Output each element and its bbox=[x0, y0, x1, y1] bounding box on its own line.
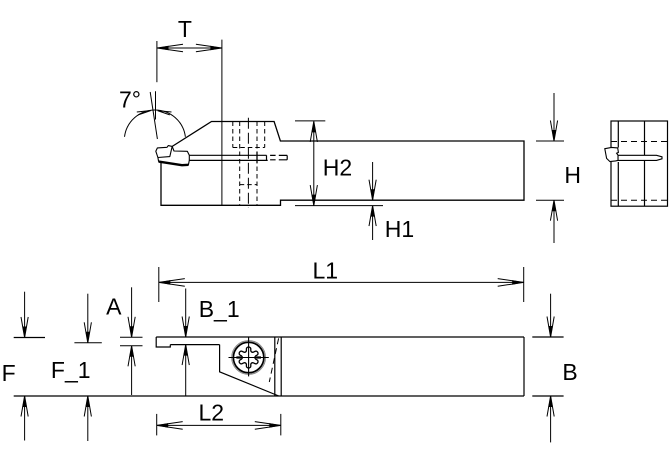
tool body outline bbox=[161, 122, 524, 206]
top edge segments bbox=[14, 337, 45, 339]
insert clamp at tip (upper view) bbox=[156, 146, 190, 166]
right edge bbox=[523, 337, 525, 396]
dimension F_1 bbox=[74, 294, 101, 441]
svg-text:T: T bbox=[178, 16, 192, 42]
dimension T bbox=[157, 41, 222, 82]
dimension B_1 bbox=[185, 289, 187, 396]
svg-text:B_1: B_1 bbox=[199, 296, 240, 322]
svg-text:H: H bbox=[564, 162, 581, 188]
svg-text:B: B bbox=[562, 359, 577, 385]
clamp screw (torx) bbox=[229, 337, 269, 376]
svg-text:H1: H1 bbox=[385, 216, 414, 242]
end view clamp bbox=[605, 147, 619, 161]
blade left box bbox=[156, 337, 170, 347]
insert pocket bbox=[220, 345, 279, 396]
dimension H bbox=[536, 93, 564, 243]
svg-text:A: A bbox=[106, 294, 122, 320]
dimension H2 bbox=[295, 120, 325, 122]
hidden screw hole (upper view) bbox=[233, 122, 265, 205]
svg-text:7°: 7° bbox=[119, 87, 141, 113]
thick cutting edge bbox=[159, 162, 189, 166]
7 degree angle bbox=[125, 91, 186, 139]
dimension H1 bbox=[372, 162, 374, 200]
dimension A bbox=[120, 287, 143, 395]
svg-text:L2: L2 bbox=[199, 399, 225, 425]
end view insert bar bbox=[618, 155, 662, 160]
svg-text:F_1: F_1 bbox=[51, 357, 91, 383]
svg-text:H2: H2 bbox=[323, 154, 352, 180]
dimension L1 bbox=[159, 267, 524, 302]
insert beak bbox=[172, 146, 189, 160]
svg-text:F: F bbox=[2, 360, 16, 386]
dimension F bbox=[24, 292, 26, 441]
dimension L2 bbox=[157, 414, 281, 436]
screw centre line bbox=[247, 118, 249, 208]
bottom edge bbox=[14, 395, 524, 397]
lower jaw bbox=[158, 158, 189, 166]
offset reference line (H1 lower) bbox=[295, 205, 383, 207]
blade slot lines (upper view) bbox=[189, 155, 287, 160]
vertical feature line / T right extension bbox=[221, 40, 223, 206]
bold hidden-line dash crossing slot bbox=[256, 152, 258, 164]
svg-text:L1: L1 bbox=[313, 257, 339, 283]
dimension B bbox=[550, 294, 552, 443]
